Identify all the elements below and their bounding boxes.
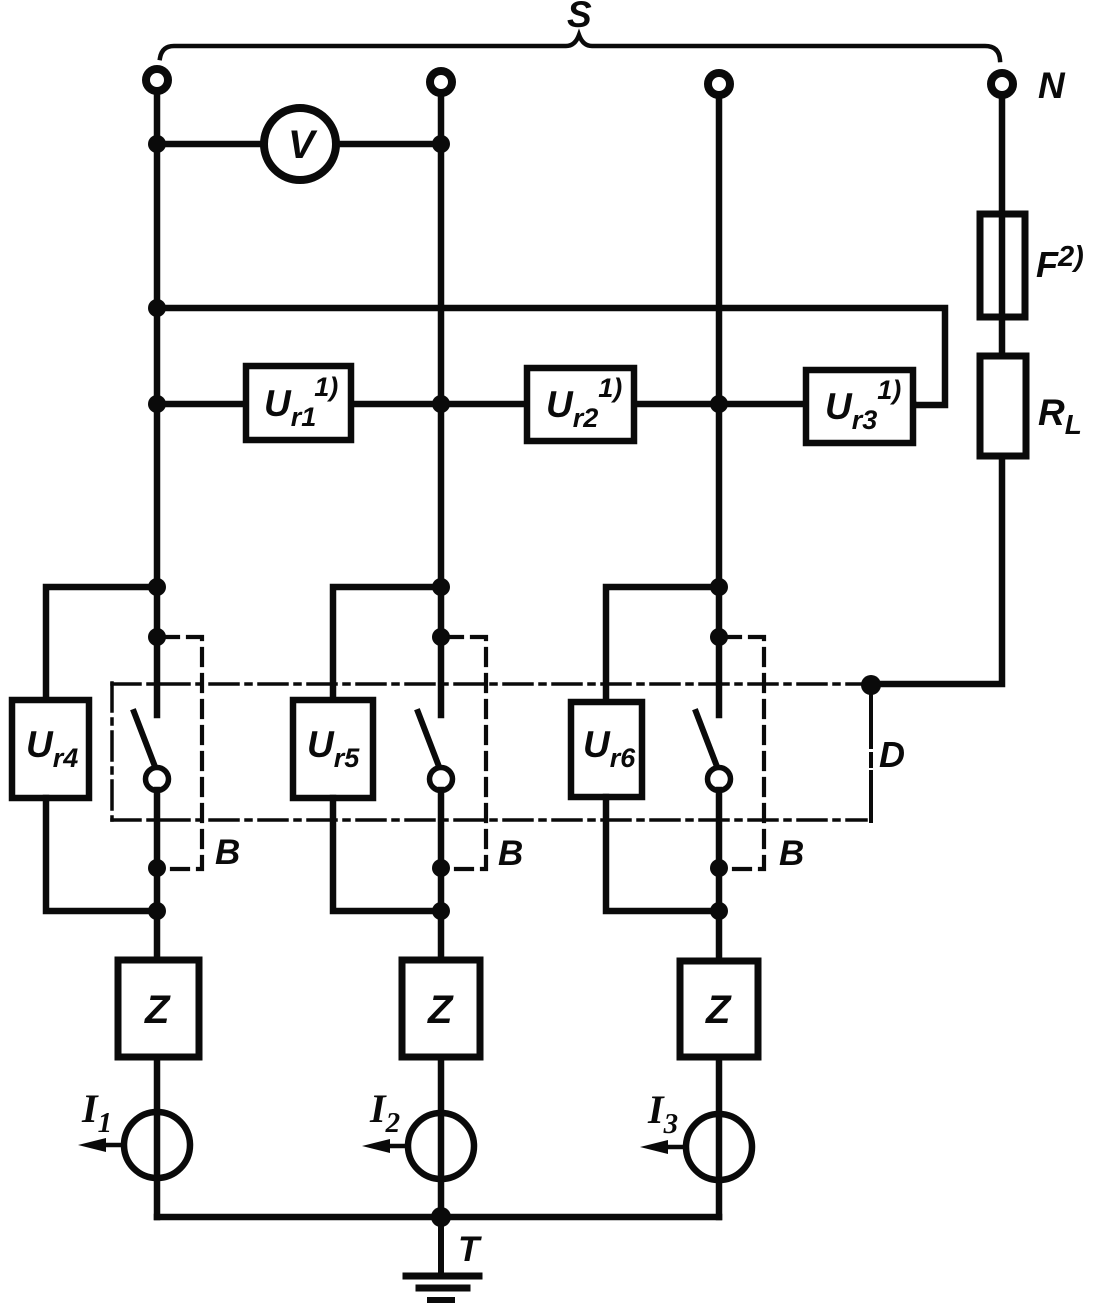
current transformer P1 bbox=[124, 1112, 190, 1178]
svg-text:T: T bbox=[458, 1230, 482, 1269]
svg-text:B: B bbox=[215, 833, 240, 872]
arrow I1 bbox=[92, 1143, 124, 1148]
switch B3 dashed box bbox=[724, 637, 764, 869]
ground T bar3 bbox=[430, 1297, 452, 1303]
wire phase L3 vertical upper bbox=[716, 98, 723, 715]
wire neutral N vertical bbox=[871, 98, 1002, 684]
enclosure D chain line bottom bbox=[112, 818, 866, 822]
terminal L1 bbox=[146, 69, 168, 91]
junction B3 top bbox=[710, 628, 728, 646]
junction B1 top bbox=[148, 628, 166, 646]
wire bottom bus bbox=[157, 1214, 719, 1221]
current transformer P3 bbox=[686, 1114, 752, 1180]
svg-text:B: B bbox=[498, 834, 523, 873]
junction B3 bottom bbox=[710, 859, 728, 877]
svg-text:F2): F2) bbox=[1036, 241, 1084, 285]
switch S2 contact bbox=[430, 768, 453, 791]
wire phase L3 lower bbox=[716, 790, 723, 1217]
svg-text:Z: Z bbox=[427, 988, 454, 1032]
svg-text:D: D bbox=[879, 734, 905, 775]
impedance Z3 bbox=[680, 961, 758, 1057]
switch S3 contact bbox=[708, 768, 731, 791]
enclosure D chain line right bbox=[869, 695, 873, 821]
svg-text:I2: I2 bbox=[369, 1086, 400, 1139]
junction B2 bottom bbox=[432, 859, 450, 877]
junction T bbox=[431, 1207, 451, 1227]
junction L3 tap top bbox=[710, 578, 728, 596]
relay coil Ur1 bbox=[246, 366, 351, 440]
junction L1 tap top bbox=[148, 578, 166, 596]
junction L2 tap top bbox=[432, 578, 450, 596]
wire Ur5 branch bottom bbox=[333, 798, 441, 911]
svg-text:V: V bbox=[288, 123, 318, 167]
enclosure D chain line top bbox=[112, 682, 866, 686]
enclosure D chain line left bbox=[110, 683, 114, 820]
voltmeter U1 bbox=[264, 108, 336, 180]
svg-text:Z: Z bbox=[144, 988, 171, 1032]
wire Ur4 branch top bbox=[46, 587, 157, 700]
relay coil Ur2 bbox=[527, 368, 634, 441]
junction L2-Ur row bbox=[432, 395, 450, 413]
brace S bbox=[160, 35, 1000, 60]
current transformer P2 bbox=[408, 1113, 474, 1179]
switch S2 blade bbox=[418, 712, 438, 764]
wire phase L2 vertical upper bbox=[438, 96, 445, 715]
impedance Z2 bbox=[402, 960, 480, 1057]
svg-text:N: N bbox=[1038, 65, 1066, 106]
wire Ur4 branch bottom bbox=[46, 798, 157, 911]
junction L3-Ur row bbox=[710, 395, 728, 413]
wire Ur6 branch bottom bbox=[606, 797, 719, 911]
terminal L3 bbox=[708, 73, 730, 95]
svg-text:I3: I3 bbox=[647, 1087, 678, 1140]
switch B2 dashed box bbox=[446, 637, 486, 869]
wire phase L1 lower bbox=[154, 790, 161, 1217]
ground T bar2 bbox=[419, 1285, 467, 1292]
relay coil Ur3 bbox=[806, 370, 913, 443]
fuse F bbox=[980, 214, 1025, 317]
junction B1 bottom bbox=[148, 859, 166, 877]
terminal L2 bbox=[430, 71, 452, 93]
junction L3 tap bottom bbox=[710, 902, 728, 920]
wire bus to Ur3 output bbox=[157, 308, 945, 405]
junction L1-V bbox=[148, 135, 166, 153]
relay coil Ur5 bbox=[293, 700, 373, 798]
relay coil Ur4 bbox=[12, 700, 89, 798]
wire Ur5 branch top bbox=[333, 587, 441, 700]
svg-text:RL: RL bbox=[1038, 392, 1082, 440]
impedance Z1 bbox=[118, 960, 199, 1057]
wire phase L2 lower bbox=[438, 790, 445, 1217]
junction L1-bus bbox=[148, 299, 166, 317]
ground T bar1 bbox=[406, 1273, 479, 1280]
wire ground stem bbox=[438, 1217, 444, 1276]
terminal N bbox=[991, 73, 1013, 95]
junction B2 top bbox=[432, 628, 450, 646]
resistor RL bbox=[980, 356, 1026, 456]
wire voltmeter row bbox=[157, 141, 441, 148]
svg-text:S: S bbox=[567, 0, 592, 35]
svg-text:B: B bbox=[779, 834, 804, 873]
svg-text:I1: I1 bbox=[81, 1086, 112, 1139]
wire Ur6 branch top bbox=[606, 587, 719, 702]
junction L2-V bbox=[432, 135, 450, 153]
wire Ur row bbox=[157, 401, 913, 408]
junction L1-Ur row bbox=[148, 395, 166, 413]
switch S1 blade bbox=[134, 712, 154, 764]
wire phase L1 vertical upper bbox=[154, 94, 161, 715]
svg-text:Z: Z bbox=[705, 988, 732, 1032]
arrow I2 bbox=[376, 1144, 408, 1149]
relay coil Ur6 bbox=[571, 702, 642, 797]
junction D-RL bbox=[861, 675, 881, 695]
switch S1 contact bbox=[146, 768, 169, 791]
switch B1 dashed box bbox=[162, 637, 202, 869]
arrow I3 bbox=[654, 1145, 686, 1150]
junction L2 tap bottom bbox=[432, 902, 450, 920]
junction L1 tap bottom bbox=[148, 902, 166, 920]
switch S3 blade bbox=[696, 712, 716, 764]
